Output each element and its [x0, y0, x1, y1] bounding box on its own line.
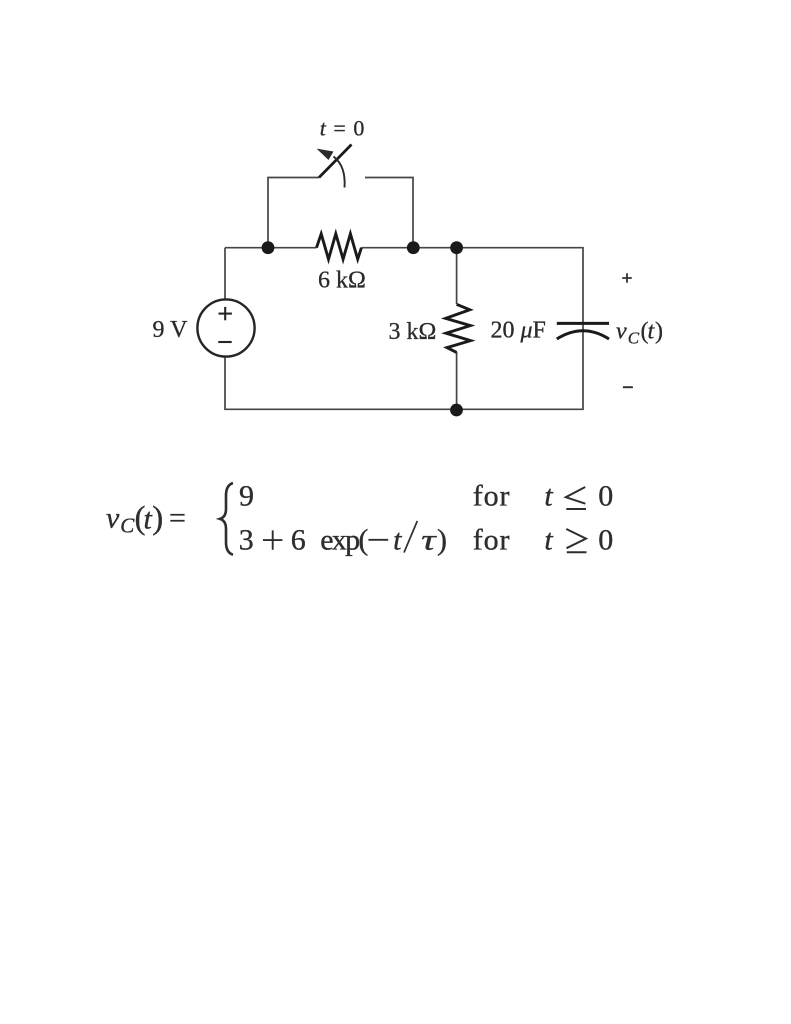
svg-text:vC(t) =: vC(t) = — [106, 501, 186, 538]
svg-text:20 μF: 20 μF — [491, 318, 546, 344]
svg-text:for: for — [473, 524, 511, 557]
svg-text:9: 9 — [239, 480, 254, 513]
svg-text:3 kΩ: 3 kΩ — [389, 319, 437, 345]
svg-text:6 kΩ: 6 kΩ — [318, 268, 366, 294]
svg-text:τ: τ — [421, 524, 437, 557]
svg-text:t0: t0 — [544, 480, 613, 513]
svg-text:vC(t): vC(t) — [616, 319, 663, 348]
svg-text:t = 0: t = 0 — [320, 116, 365, 141]
svg-text:for: for — [473, 480, 511, 513]
svg-text:9 V: 9 V — [153, 317, 189, 343]
